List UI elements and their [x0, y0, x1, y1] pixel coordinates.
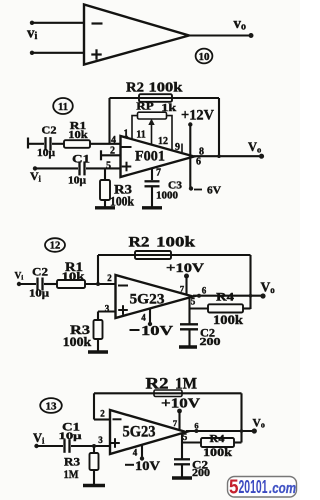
svg-text:5: 5 [191, 297, 196, 307]
svg-text:Vo: Vo [253, 418, 265, 430]
svg-text:4: 4 [111, 135, 116, 146]
svg-text:11: 11 [58, 102, 68, 113]
svg-text:Vo: Vo [248, 140, 261, 155]
svg-text:1M: 1M [175, 376, 197, 393]
svg-text:6: 6 [202, 286, 207, 296]
svg-text:5: 5 [106, 161, 111, 172]
svg-text:1M: 1M [64, 467, 79, 481]
svg-text:+10V: +10V [166, 260, 205, 275]
svg-text:RP: RP [136, 101, 154, 113]
svg-text:100k: 100k [156, 235, 196, 251]
svg-text:6: 6 [194, 421, 198, 431]
svg-text:Vi: Vi [30, 169, 42, 184]
svg-text:7: 7 [180, 284, 185, 294]
svg-text:F001: F001 [135, 149, 165, 165]
svg-text:R4: R4 [216, 290, 234, 304]
svg-text:5: 5 [183, 432, 188, 442]
svg-text:200: 200 [200, 336, 222, 348]
svg-text:3: 3 [98, 435, 103, 445]
svg-text:10μ: 10μ [59, 432, 83, 442]
svg-text:.com: .com [269, 481, 296, 497]
svg-text:R2: R2 [129, 235, 150, 251]
svg-text:R2: R2 [126, 81, 144, 96]
svg-text:7: 7 [156, 168, 161, 179]
svg-text:vi: vi [27, 26, 38, 43]
svg-text:11: 11 [136, 130, 145, 141]
svg-text:2: 2 [100, 409, 105, 419]
svg-text:200: 200 [192, 468, 210, 479]
svg-text:10k: 10k [68, 129, 88, 141]
svg-text:100k: 100k [149, 81, 183, 96]
svg-text:13: 13 [46, 402, 57, 413]
svg-text:10V: 10V [135, 459, 160, 473]
svg-text:vo: vo [234, 16, 247, 33]
svg-text:100k: 100k [63, 335, 92, 349]
svg-text:2: 2 [110, 146, 115, 157]
svg-text:1: 1 [124, 129, 129, 140]
svg-text:1k: 1k [161, 102, 177, 114]
svg-text:10μ: 10μ [68, 176, 86, 187]
svg-text:2: 2 [107, 273, 112, 283]
svg-text:Vi: Vi [15, 272, 24, 282]
svg-text:100k: 100k [213, 313, 243, 327]
svg-text:10V: 10V [141, 324, 173, 339]
svg-text:1000: 1000 [156, 190, 179, 202]
svg-text:7: 7 [173, 418, 178, 428]
svg-text:5G23: 5G23 [123, 424, 156, 441]
svg-text:20101: 20101 [239, 476, 268, 497]
svg-text:4: 4 [133, 448, 138, 458]
svg-text:C1: C1 [72, 152, 90, 166]
svg-text:6: 6 [196, 157, 201, 168]
svg-text:C2: C2 [32, 265, 48, 279]
svg-text:9: 9 [175, 142, 180, 153]
svg-text:12: 12 [50, 241, 61, 252]
svg-text:100k: 100k [110, 195, 134, 209]
svg-text:+12V: +12V [181, 108, 214, 124]
svg-text:Vo: Vo [261, 280, 276, 296]
svg-text:10μ: 10μ [37, 148, 55, 159]
svg-text:10k: 10k [62, 271, 86, 283]
svg-text:10μ: 10μ [29, 289, 49, 300]
svg-text:4: 4 [141, 313, 146, 323]
svg-text:R2: R2 [146, 376, 169, 393]
svg-text:C2: C2 [42, 125, 58, 137]
svg-text:R4: R4 [210, 434, 226, 445]
svg-text:6V: 6V [207, 185, 221, 197]
svg-text:Vi: Vi [33, 431, 45, 446]
svg-text:10: 10 [199, 52, 210, 63]
svg-text:5G23: 5G23 [130, 292, 165, 308]
svg-text:+10V: +10V [161, 396, 200, 411]
svg-text:12: 12 [158, 136, 168, 147]
svg-text:5: 5 [229, 477, 239, 499]
